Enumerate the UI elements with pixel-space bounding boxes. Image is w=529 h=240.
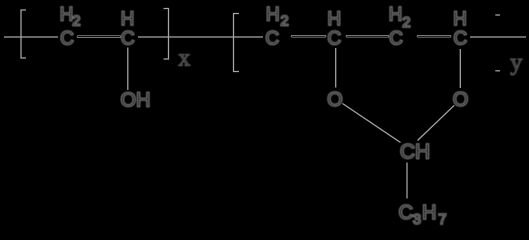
svg-text:C: C: [453, 29, 467, 50]
bracket right of y-unit (top dash): [495, 14, 500, 16]
svg-text:2: 2: [402, 14, 410, 31]
wire: bond C5-C6 (outlined): [418, 35, 450, 38]
wire: bond O (right) to CH: [418, 105, 455, 140]
svg-text:C: C: [265, 29, 279, 50]
wire: bond C6 to right edge: [470, 36, 526, 38]
wire: bond C4-C5 (outlined): [347, 35, 388, 38]
wire: bond C1-C2 (outlined): [78, 35, 120, 38]
svg-text:y: y: [510, 50, 522, 76]
wire: bond CH down to C3H7: [406, 163, 408, 199]
svg-text:H: H: [327, 9, 341, 30]
bracket left of y-unit: [234, 14, 240, 72]
wire: bond C3-C4 core: [292, 35, 325, 37]
svg-text:CH: CH: [400, 141, 430, 164]
svg-text:3: 3: [413, 211, 421, 228]
svg-text:O: O: [327, 89, 343, 111]
wire: bond C3-C4 (outlined): [292, 35, 325, 38]
svg-text:C: C: [399, 202, 413, 224]
svg-text:H: H: [422, 202, 436, 224]
svg-text:C: C: [60, 29, 74, 50]
svg-text:H: H: [121, 9, 135, 30]
bracket left of x-unit: [21, 10, 26, 58]
svg-text:O: O: [453, 89, 469, 111]
svg-text:2: 2: [280, 13, 288, 30]
wire: backbone bond left edge to C1: [4, 36, 58, 38]
bracket right of x-unit: [164, 9, 169, 60]
wire: bond O (left) to CH: [343, 104, 401, 143]
wire: bond C5-C6 core: [418, 35, 450, 37]
svg-text:H: H: [60, 5, 74, 26]
wire: bond C4 down to O: [335, 48, 337, 88]
wire: bond C6 down to O: [459, 49, 461, 88]
svg-text:H: H: [389, 5, 403, 26]
svg-text:H: H: [266, 5, 280, 26]
svg-text:x: x: [178, 46, 190, 72]
svg-text:OH: OH: [121, 90, 151, 112]
wire: bond C1-C2 core: [78, 36, 120, 38]
svg-text:C: C: [121, 29, 135, 50]
wire: bond C2 to C3 through brackets: [138, 36, 263, 38]
wire: bond C4-C5 core: [347, 35, 388, 37]
wire: bond C2 down to OH: [127, 48, 129, 91]
svg-text:C: C: [389, 29, 403, 50]
svg-text:7: 7: [438, 211, 446, 228]
svg-text:2: 2: [72, 13, 80, 30]
bracket right of y-unit (bottom dash): [495, 70, 500, 72]
svg-text:C: C: [327, 29, 341, 50]
svg-text:H: H: [453, 9, 467, 30]
